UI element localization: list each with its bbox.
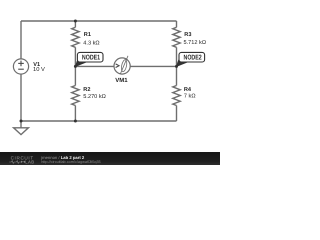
junction ground <box>20 120 23 123</box>
wire top horizontal from V1 to R3 column <box>21 20 177 22</box>
resistor R2 <box>72 86 106 106</box>
resistor R4 <box>173 86 196 106</box>
wire left column V1 bottom lead <box>20 74 22 121</box>
wire R3 leads and right column <box>176 21 178 27</box>
footer watermark bar <box>0 152 220 165</box>
svg-text:5.712 kΩ: 5.712 kΩ <box>184 39 207 46</box>
wire left column V1 top lead <box>20 21 22 59</box>
svg-text:R4: R4 <box>184 87 192 93</box>
svg-text:4.3 kΩ: 4.3 kΩ <box>83 40 99 47</box>
svg-text:10 V: 10 V <box>33 66 45 73</box>
resistor R1 <box>72 27 100 47</box>
wire R1 leads and middle column <box>74 21 76 27</box>
wire bottom horizontal <box>21 120 177 122</box>
svg-text:R2: R2 <box>83 87 90 93</box>
svg-text:http://circuitlab.com/c/agwa63: http://circuitlab.com/c/agwa63t5q35 <box>41 160 101 164</box>
junction R1 top <box>74 20 77 23</box>
wire VM1 left <box>75 65 114 67</box>
ground <box>14 121 29 135</box>
voltmeter VM1 <box>114 56 130 84</box>
svg-text:5.270 kΩ: 5.270 kΩ <box>83 93 106 100</box>
svg-text:VM1: VM1 <box>115 77 128 84</box>
svg-text:LAB: LAB <box>25 160 34 165</box>
junction node B (NODE2 / VM1 right) <box>175 65 178 68</box>
junction R2 bottom <box>74 120 77 123</box>
svg-text:NODE1: NODE1 <box>82 54 100 61</box>
svg-text:7 kΩ: 7 kΩ <box>184 93 196 100</box>
voltage source V1 <box>13 59 45 74</box>
svg-text:R3: R3 <box>184 32 191 38</box>
node NODE1 flag <box>75 52 103 66</box>
node NODE2 flag <box>177 52 205 66</box>
svg-text:R1: R1 <box>84 32 91 38</box>
svg-text:NODE2: NODE2 <box>184 54 202 61</box>
wire VM1 right <box>130 65 176 67</box>
resistor R3 <box>173 27 206 47</box>
junction node A (NODE1 / VM1 left) <box>74 65 77 68</box>
